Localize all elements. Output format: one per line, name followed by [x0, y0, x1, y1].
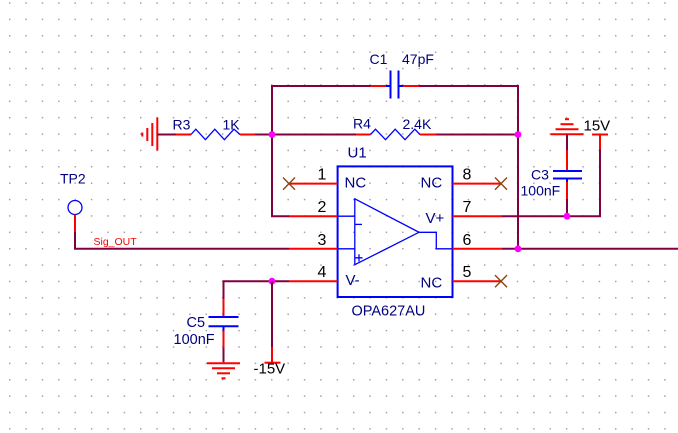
svg-text:15V: 15V	[584, 118, 611, 135]
wire left vertical from top loop to pin2	[272, 85, 289, 216]
svg-text:Sig_OUT: Sig_OUT	[94, 236, 138, 248]
svg-text:100nF: 100nF	[174, 332, 215, 348]
test point TP2	[68, 201, 82, 215]
svg-text:3: 3	[318, 232, 327, 249]
junction feedback/output	[515, 245, 522, 252]
op-amp U1	[338, 166, 453, 297]
svg-text:NC: NC	[421, 275, 443, 292]
svg-text:1: 1	[318, 167, 327, 184]
pin 8 lead	[453, 183, 502, 185]
wire right vertical feedback	[517, 85, 519, 249]
wire ground to R3	[157, 134, 176, 136]
svg-text:NC: NC	[421, 175, 443, 192]
svg-text:-15V: -15V	[254, 360, 286, 377]
svg-text:4: 4	[318, 264, 327, 281]
svg-text:V+: V+	[426, 210, 445, 227]
svg-text:2: 2	[318, 199, 327, 216]
pin 7 lead	[453, 215, 503, 217]
junction node R3/R4	[269, 131, 276, 138]
junction node R4/feedback	[515, 131, 522, 138]
wire pin7 to 15V	[502, 150, 600, 217]
wire C3 to V+ rail	[566, 199, 568, 216]
pin 4 lead	[289, 280, 338, 282]
svg-text:R3: R3	[173, 117, 191, 133]
pin 5 lead	[453, 280, 502, 282]
power -15V symbol	[265, 347, 281, 363]
svg-text:V-: V-	[346, 272, 360, 289]
no-connect X pin1	[283, 178, 295, 190]
capacitor C1	[371, 71, 420, 99]
pin 6 lead	[453, 248, 503, 250]
junction C3/V+	[564, 213, 571, 220]
wire R4 to right node	[437, 134, 519, 136]
ground above C3	[551, 119, 584, 134]
svg-text:100nF: 100nF	[521, 183, 561, 199]
wire TP2 to pin3	[75, 232, 289, 249]
pin 1 lead	[289, 183, 338, 185]
svg-text:TP2: TP2	[60, 171, 86, 187]
capacitor C3	[553, 150, 582, 199]
svg-text:6: 6	[463, 232, 472, 249]
svg-text:5: 5	[463, 264, 472, 281]
svg-text:OPA627AU: OPA627AU	[352, 304, 426, 320]
wire pin4 to C5	[224, 281, 290, 298]
svg-text:8: 8	[463, 167, 472, 184]
svg-text:1K: 1K	[223, 117, 241, 133]
svg-text:47pF: 47pF	[402, 51, 434, 67]
wire C5 to ground	[223, 348, 225, 362]
junction pin4/C5/-15V	[269, 278, 276, 285]
wire TP2 stub	[74, 215, 76, 233]
capacitor C5	[209, 299, 239, 349]
svg-text:R4: R4	[353, 116, 371, 132]
resistor R3	[176, 129, 256, 140]
ground at R3 input	[142, 118, 157, 151]
svg-text:7: 7	[463, 199, 472, 216]
svg-text:U1: U1	[348, 144, 367, 161]
no-connect X pin8	[495, 178, 507, 190]
resistor R4	[356, 129, 437, 140]
wire node to R4	[272, 134, 356, 136]
pin 2 lead	[289, 215, 338, 217]
wire ground to C3	[566, 135, 568, 151]
svg-text:2.4K: 2.4K	[403, 116, 432, 132]
no-connect X pin5	[495, 275, 507, 287]
wire output	[502, 248, 678, 250]
power 15V symbol	[592, 135, 608, 150]
svg-text:NC: NC	[345, 175, 367, 192]
pin 3 lead	[289, 248, 338, 250]
wire top feedback right segment	[419, 85, 518, 87]
svg-text:C3: C3	[531, 167, 549, 183]
svg-text:C5: C5	[187, 315, 206, 331]
wire node to -15V	[271, 281, 273, 347]
wire R3 to node	[256, 134, 273, 136]
wire top feedback left segment	[272, 85, 371, 87]
ground below C5	[207, 363, 240, 378]
svg-text:C1: C1	[370, 51, 388, 67]
